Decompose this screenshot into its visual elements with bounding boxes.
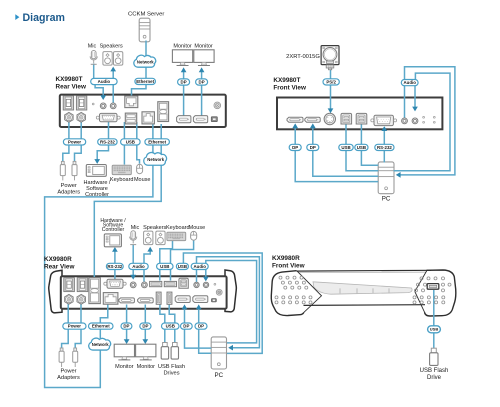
svg-text:Diagram: Diagram	[23, 12, 65, 24]
wire power jack 1 to adapter 1 (KX9980T)	[63, 121, 69, 162]
oval USB bottom	[162, 323, 180, 329]
wire line jack to speakers (KX9980R)	[144, 249, 150, 281]
wire front mic jack via audio loop to PC	[400, 67, 455, 175]
wire USB port to mouse (KX9980T)	[137, 122, 140, 164]
power switch 1 (KX9980R)	[64, 278, 75, 292]
wire power jack 2 to adapter 2 (KX9980T)	[75, 121, 82, 162]
svg-text:RS-232: RS-232	[377, 145, 392, 150]
mic jack (KX9980R)	[130, 282, 136, 288]
network cloud (bottom)	[89, 338, 111, 350]
arrowhead into front line jack	[412, 107, 418, 112]
KX9980R front left crease	[297, 271, 321, 312]
network cloud (mid)	[144, 152, 167, 165]
svg-text:USB: USB	[341, 145, 350, 150]
DC power jack 2 (KX9980R)	[77, 294, 85, 304]
oval DP bottom 1	[121, 323, 132, 329]
wire audio oval to line jack (KX9980R)	[205, 269, 207, 278]
oval DP bottom 2	[140, 323, 151, 329]
KX9980R front right bracket	[425, 270, 456, 316]
svg-text:Ethernet: Ethernet	[136, 79, 154, 84]
power adapter plug 1 (KX9980T)	[60, 161, 65, 180]
arrowhead into DP in port 2	[196, 304, 202, 309]
title bullet triangle	[15, 14, 19, 20]
KX9980R front center grille band	[313, 282, 412, 294]
wire front DP oval 2 to PC	[313, 151, 378, 177]
KX9980R chassis left wing	[49, 270, 62, 313]
wire DP port 1 to monitor 1 (KX9980T)	[183, 69, 185, 116]
svg-text:USB: USB	[178, 264, 187, 269]
wire audio oval to line jack (front)	[414, 86, 416, 108]
USB flash drive 1	[161, 343, 168, 360]
oval RS-232 (KX9980R)	[106, 263, 123, 269]
svg-text:DP: DP	[183, 324, 189, 329]
front DP port 1	[287, 117, 303, 122]
oval DP 1 (top)	[178, 79, 190, 85]
wire keyboard to USB port 1 (KX9980R)	[160, 241, 173, 281]
2XRT-0015G PS/2 module	[321, 46, 339, 70]
oval USB 1 (KX9980R)	[157, 263, 173, 269]
oval USB front 1	[339, 144, 353, 150]
wire line-out jack to speakers (KX9980T rear)	[112, 68, 114, 103]
wire front USB-B 2 to PC	[361, 124, 378, 165]
svg-text:USB: USB	[430, 327, 439, 332]
USB-A vertical port 2	[167, 292, 172, 304]
RS-232 DB9 port (KX9980T)	[96, 113, 120, 121]
svg-text:PC: PC	[382, 196, 391, 203]
oval Audio (KX9980T rear)	[91, 78, 117, 84]
svg-text:DP: DP	[198, 324, 204, 329]
svg-text:RS-232: RS-232	[100, 139, 115, 144]
DC power jack 1 (KX9980T)	[65, 112, 73, 122]
svg-text:DP: DP	[292, 145, 298, 150]
keyboard icon (mid)	[167, 232, 186, 240]
wire audio jack loop to bottom PC	[197, 257, 260, 348]
svg-text:USB Flash: USB Flash	[420, 368, 449, 374]
microphone icon	[90, 51, 97, 65]
DC power jack 1 (KX9980R)	[65, 294, 73, 304]
svg-text:Mouse: Mouse	[189, 225, 206, 231]
mouse icon (KX9980T)	[137, 164, 143, 173]
mouse icon (mid)	[191, 231, 197, 240]
monitor 2 icon (top)	[194, 50, 214, 66]
USB flash drive (front)	[430, 348, 438, 365]
svg-text:RS-232: RS-232	[107, 264, 122, 269]
svg-text:Power: Power	[68, 139, 81, 144]
DP output port 1 (KX9980T)	[177, 116, 191, 123]
svg-text:Mic: Mic	[88, 43, 97, 49]
LED 1a	[423, 116, 425, 118]
oval RS-232 front	[375, 144, 394, 150]
hardware/software controller (KX9980R)	[104, 234, 121, 247]
link RJ45/SFP stack (KX9980T)	[158, 102, 169, 122]
KX9980R front grille top line	[299, 271, 426, 274]
arrowhead into KX9980R mic jack	[130, 275, 136, 280]
oval Ethernet (KX9980T bottom)	[145, 139, 170, 145]
arrowhead into mic-in jack	[100, 95, 106, 100]
oval DP 2 (top)	[196, 79, 208, 85]
wire ethernet long route to KX9980R LAN port	[45, 124, 153, 388]
panel hole (KX9980T)	[92, 103, 94, 105]
svg-text:USB: USB	[126, 139, 135, 144]
svg-text:Adapters: Adapters	[57, 375, 80, 381]
LAN RJ45 port 2 (KX9980T)	[142, 112, 154, 124]
bottom monitor 2	[136, 344, 156, 360]
wire front USB-B 1 to PC	[346, 124, 378, 171]
LED 1b	[423, 121, 425, 123]
power switch 1 (KX9980T)	[63, 96, 73, 110]
wire front RS-232 to PC	[383, 127, 385, 163]
KX9980R front right crease	[415, 271, 427, 314]
wire mic to audio jack (KX9980R)	[132, 245, 134, 277]
svg-text:PS/2: PS/2	[326, 79, 336, 84]
svg-text:Speakers: Speakers	[100, 43, 123, 49]
wire front USB port to flash drive	[433, 290, 435, 349]
arrowhead into PC right side	[396, 172, 401, 178]
terminal block (KX9980T)	[211, 117, 217, 122]
wire audio oval top loop to PC	[394, 73, 450, 171]
arrowhead into monitor 2	[199, 67, 205, 72]
svg-text:Audio: Audio	[98, 79, 111, 84]
hardware/software controller (KX9980T)	[86, 165, 106, 177]
LAN RJ45 port (KX9980R)	[103, 293, 118, 305]
front DP port 2	[305, 117, 320, 122]
oval USB (KX9980T)	[121, 139, 141, 145]
svg-text:DP: DP	[181, 80, 187, 85]
line-out jack (KX9980T)	[110, 103, 116, 109]
svg-text:Power: Power	[60, 368, 76, 374]
svg-text:Monitor: Monitor	[194, 43, 213, 49]
RS-232 DB9 port (front)	[371, 115, 397, 125]
line jack (KX9980R)	[142, 282, 148, 288]
oval Audio right (KX9980R)	[191, 263, 208, 269]
microphone icon (mid)	[130, 231, 137, 245]
svg-text:Network: Network	[147, 157, 164, 162]
wire mic to audio oval (KX9980T)	[93, 64, 95, 80]
speaker icon left	[103, 52, 112, 66]
link RJ45/SFP stack (KX9980R)	[89, 278, 100, 304]
KX9980R front center bar	[294, 270, 433, 305]
svg-text:Audio: Audio	[193, 264, 206, 269]
LED 2a	[433, 116, 435, 118]
oval Audio left (KX9980R)	[129, 263, 148, 269]
speaker icon right (mid)	[156, 231, 165, 245]
svg-text:USB: USB	[160, 264, 169, 269]
wire RS-232 port to controller (KX9980R)	[114, 250, 116, 279]
svg-text:Rear View: Rear View	[56, 84, 86, 91]
svg-text:Mic: Mic	[131, 225, 140, 231]
power switch 2 (KX9980T)	[76, 96, 86, 110]
oval Power (KX9980T)	[63, 139, 85, 145]
wire mouse to USB port 2 (KX9980R)	[171, 240, 194, 280]
DP input port 2 (KX9980R)	[193, 296, 208, 303]
svg-text:KX9980R: KX9980R	[44, 256, 72, 263]
svg-text:DP: DP	[142, 324, 148, 329]
PC tower (top right)	[378, 162, 394, 194]
svg-text:DP: DP	[123, 324, 129, 329]
speaker icon left (mid)	[144, 231, 153, 245]
svg-text:Monitor: Monitor	[173, 43, 192, 49]
pc mic jack (KX9980R)	[194, 282, 199, 287]
wire power jack 2 to adapter (KX9980R)	[75, 304, 81, 348]
svg-text:Adapters: Adapters	[57, 190, 80, 196]
wire CCKM server - network - ethernet port	[132, 41, 147, 98]
svg-text:USB: USB	[357, 145, 366, 150]
USB-A port 1 (KX9980R)	[150, 281, 162, 286]
speaker icon right	[114, 52, 123, 66]
KX9980T rear panel	[60, 95, 226, 127]
svg-text:Audio: Audio	[403, 80, 416, 85]
svg-text:Speakers: Speakers	[143, 225, 166, 231]
svg-text:Audio: Audio	[132, 264, 145, 269]
DC power jack 2 (KX9980T)	[77, 112, 85, 122]
wire USB-B loop to bottom PC	[183, 253, 262, 353]
monitor 1 icon (top)	[172, 50, 192, 66]
arrowhead into speakers	[110, 67, 116, 72]
wire DP in 2 shaft	[198, 308, 200, 323]
oval USB front 2	[355, 144, 368, 150]
arrowhead into KX9980R speakers	[147, 247, 153, 252]
wire DP oval 2 shaft (front)	[312, 127, 314, 144]
arrowhead into bottom monitor 1	[124, 339, 130, 344]
arrowhead into front DP port 2	[310, 123, 316, 128]
USB flash drive 2	[171, 343, 178, 360]
svg-text:Drives: Drives	[163, 370, 179, 376]
wire link port to KX9980R link port	[94, 124, 161, 280]
KX9980R front left cap	[271, 271, 304, 316]
wire USB to flash drive 1	[160, 305, 165, 343]
svg-text:USB: USB	[166, 324, 175, 329]
oval USB 2 (KX9980R)	[176, 263, 188, 269]
KX9980R front center bar top edge	[294, 269, 431, 272]
wire audio oval loop to bottom PC	[206, 261, 257, 343]
panel hole (KX9980R)	[214, 283, 216, 285]
svg-text:DP: DP	[199, 80, 205, 85]
USB type-A stacked ports (KX9980T)	[125, 113, 136, 124]
arrowhead into monitor 1	[181, 67, 187, 72]
bottom monitor 1	[114, 344, 134, 360]
svg-text:KX9980T: KX9980T	[56, 76, 83, 83]
front line jack	[412, 118, 418, 124]
wire DP oval 1 shaft (front)	[294, 127, 296, 144]
arrowhead into controller	[94, 159, 100, 164]
KX9980T front panel	[277, 98, 442, 130]
svg-text:Controller: Controller	[85, 192, 109, 198]
svg-text:Keyboard: Keyboard	[166, 225, 190, 231]
wire DP in 1 oval to PC	[185, 329, 212, 348]
svg-text:Ethernet: Ethernet	[92, 324, 110, 329]
KX9980R front grille ticks	[340, 288, 389, 293]
KX9980R front USB port	[427, 284, 439, 290]
oval Power (KX9980R)	[63, 323, 86, 329]
svg-text:USB Flash: USB Flash	[158, 364, 185, 370]
arrowhead into bottom PC right side	[228, 345, 233, 351]
wire DP in 1 shaft	[184, 308, 186, 323]
oval DP bottom 4	[195, 323, 207, 329]
KX9980R chassis right wing	[225, 270, 236, 312]
wire power jack 1 to adapter (KX9980R)	[62, 304, 69, 348]
svg-text:DP: DP	[310, 145, 316, 150]
USB type-B port (KX9980R)	[179, 278, 188, 288]
front mic jack	[402, 118, 408, 124]
svg-text:Front View: Front View	[273, 85, 306, 92]
wire USB to flash drive 2	[169, 305, 175, 343]
grounding screw (KX9980T)	[214, 102, 221, 109]
PS/2 port (front)	[324, 113, 335, 124]
oval DP bottom 3	[181, 323, 193, 329]
ethernet RJ45 port (KX9980T)	[125, 96, 138, 108]
DP output port 2 (KX9980T)	[193, 116, 207, 123]
oval DP front 1	[289, 144, 301, 150]
svg-text:Keyboard: Keyboard	[110, 177, 134, 183]
svg-text:Ethernet: Ethernet	[148, 139, 166, 144]
svg-text:Mouse: Mouse	[134, 177, 151, 183]
pc line jack (KX9980R)	[203, 282, 208, 287]
oval USB (KX9980R front)	[428, 326, 441, 333]
wire DP out 1 to bottom monitor 1	[126, 305, 128, 341]
oval DP front 2	[307, 144, 319, 150]
svg-text:Rear View: Rear View	[44, 264, 74, 271]
svg-text:Power: Power	[68, 324, 81, 329]
svg-text:KX9980R: KX9980R	[272, 255, 300, 262]
wire front DP oval 1 to PC	[295, 151, 378, 182]
DP monitor out 1 (KX9980R)	[119, 298, 135, 303]
KX9980R front left cap vent holes	[275, 276, 312, 304]
power switch 2 (KX9980R)	[77, 278, 88, 292]
oval RS-232 (KX9980T)	[98, 139, 117, 145]
mic-in jack (KX9980T)	[100, 103, 106, 109]
KX9980R rear panel	[61, 276, 227, 308]
svg-text:Power: Power	[61, 183, 77, 189]
svg-text:Monitor: Monitor	[137, 364, 156, 370]
RS-232 DB9 port (KX9980R)	[104, 279, 126, 288]
keyboard icon (KX9980T)	[112, 165, 131, 174]
wire USB port to keyboard (KX9980T)	[123, 122, 125, 165]
oval Ethernet (top)	[135, 78, 156, 84]
arrowhead into front DB9 port	[381, 126, 387, 131]
LED 2b	[433, 121, 435, 123]
DP input port 1 (KX9980R)	[175, 296, 190, 303]
arrowhead into KX9980R line jack	[203, 277, 209, 282]
KX9980R front center bar bottom edge	[304, 304, 426, 307]
arrowhead into DP in port 1	[182, 304, 188, 309]
wire DP in 2 oval to PC	[199, 329, 212, 353]
svg-text:KX9980T: KX9980T	[273, 77, 300, 84]
wire audio oval to mic-in jack (KX9980T rear)	[95, 84, 103, 96]
oval Ethernet (KX9980R)	[89, 323, 114, 329]
arrowhead into front DP port 1	[292, 123, 298, 128]
power adapter plug 2 (KX9980R)	[73, 348, 78, 367]
KX9980R front right cap vent holes	[413, 277, 451, 304]
network cloud (top)	[134, 55, 156, 67]
svg-text:CCKM Server: CCKM Server	[128, 12, 164, 18]
svg-text:Network: Network	[92, 342, 109, 347]
wire 2XRT-0015G to PS/2 port	[330, 69, 332, 109]
svg-text:Drive: Drive	[427, 375, 442, 381]
DP monitor out 2 (KX9980R)	[138, 298, 154, 303]
wire DP port 2 to monitor 2 (KX9980T)	[201, 69, 203, 116]
power adapter plug 1 (KX9980R)	[59, 348, 64, 367]
wire DP out 2 to bottom monitor 2	[144, 305, 146, 341]
svg-text:Monitor: Monitor	[115, 364, 134, 370]
arrowhead into KX9980R controller	[112, 247, 118, 252]
USB type-B port 1 (front)	[341, 113, 352, 124]
svg-text:PC: PC	[214, 372, 223, 379]
svg-text:2XRT-0015G: 2XRT-0015G	[286, 54, 320, 60]
oval PS/2	[323, 79, 339, 85]
wire RS-232 port to controller (KX9980T)	[97, 122, 108, 160]
CCKM server tower	[139, 18, 150, 42]
USB-A port 2 (KX9980R)	[164, 281, 176, 286]
svg-text:Front View: Front View	[272, 263, 305, 270]
USB-A vertical port 1	[156, 292, 161, 304]
arrowhead into PS/2 port	[328, 108, 334, 113]
svg-text:Network: Network	[137, 59, 154, 64]
terminal block (KX9980R)	[212, 299, 217, 302]
grounding screw (KX9980R)	[216, 289, 222, 295]
svg-text:Controller: Controller	[102, 227, 125, 233]
oval Audio (front)	[401, 80, 418, 86]
power adapter plug 2 (KX9980T)	[72, 161, 77, 180]
USB type-B port 2 (front)	[356, 113, 367, 124]
PC tower (bottom right)	[211, 337, 226, 369]
arrowhead into bottom monitor 2	[142, 339, 148, 344]
